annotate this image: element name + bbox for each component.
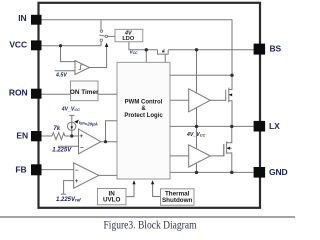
svg-text:Protect Logic: Protect Logic [124,113,163,119]
svg-text:LDO: LDO [122,36,134,42]
svg-text:UVLO: UVLO [103,197,121,204]
svg-text:VCC: VCC [9,40,27,50]
svg-text:7k: 7k [53,126,60,132]
svg-text:4V_VCC: 4V_VCC [186,132,205,138]
svg-text:FB: FB [15,164,26,174]
svg-text:1.225V: 1.225V [52,147,72,153]
svg-text:IN: IN [18,13,26,23]
svg-text:+: + [75,179,79,185]
svg-text:Figure3. Block Diagram: Figure3. Block Diagram [104,219,197,231]
svg-text:VCC: VCC [130,50,139,56]
svg-text:−: − [75,168,79,174]
svg-text:IEN=20µA: IEN=20µA [79,120,98,127]
svg-text:LX: LX [269,121,280,131]
svg-text:4V_VCC: 4V_VCC [61,106,80,112]
svg-text:RON: RON [9,88,28,98]
svg-text:PWM Control: PWM Control [125,99,163,105]
svg-text:Shutdown: Shutdown [162,197,193,204]
svg-text:EN: EN [16,131,28,141]
svg-text:+: + [80,134,84,140]
svg-text:GND: GND [269,167,288,177]
svg-text:ON Timer: ON Timer [70,89,99,96]
svg-text:−: − [80,146,84,152]
svg-text:1.225Vref: 1.225Vref [56,197,81,203]
svg-text:BS: BS [270,44,282,54]
svg-text:&: & [141,106,146,112]
svg-text:4.5V: 4.5V [55,72,67,78]
